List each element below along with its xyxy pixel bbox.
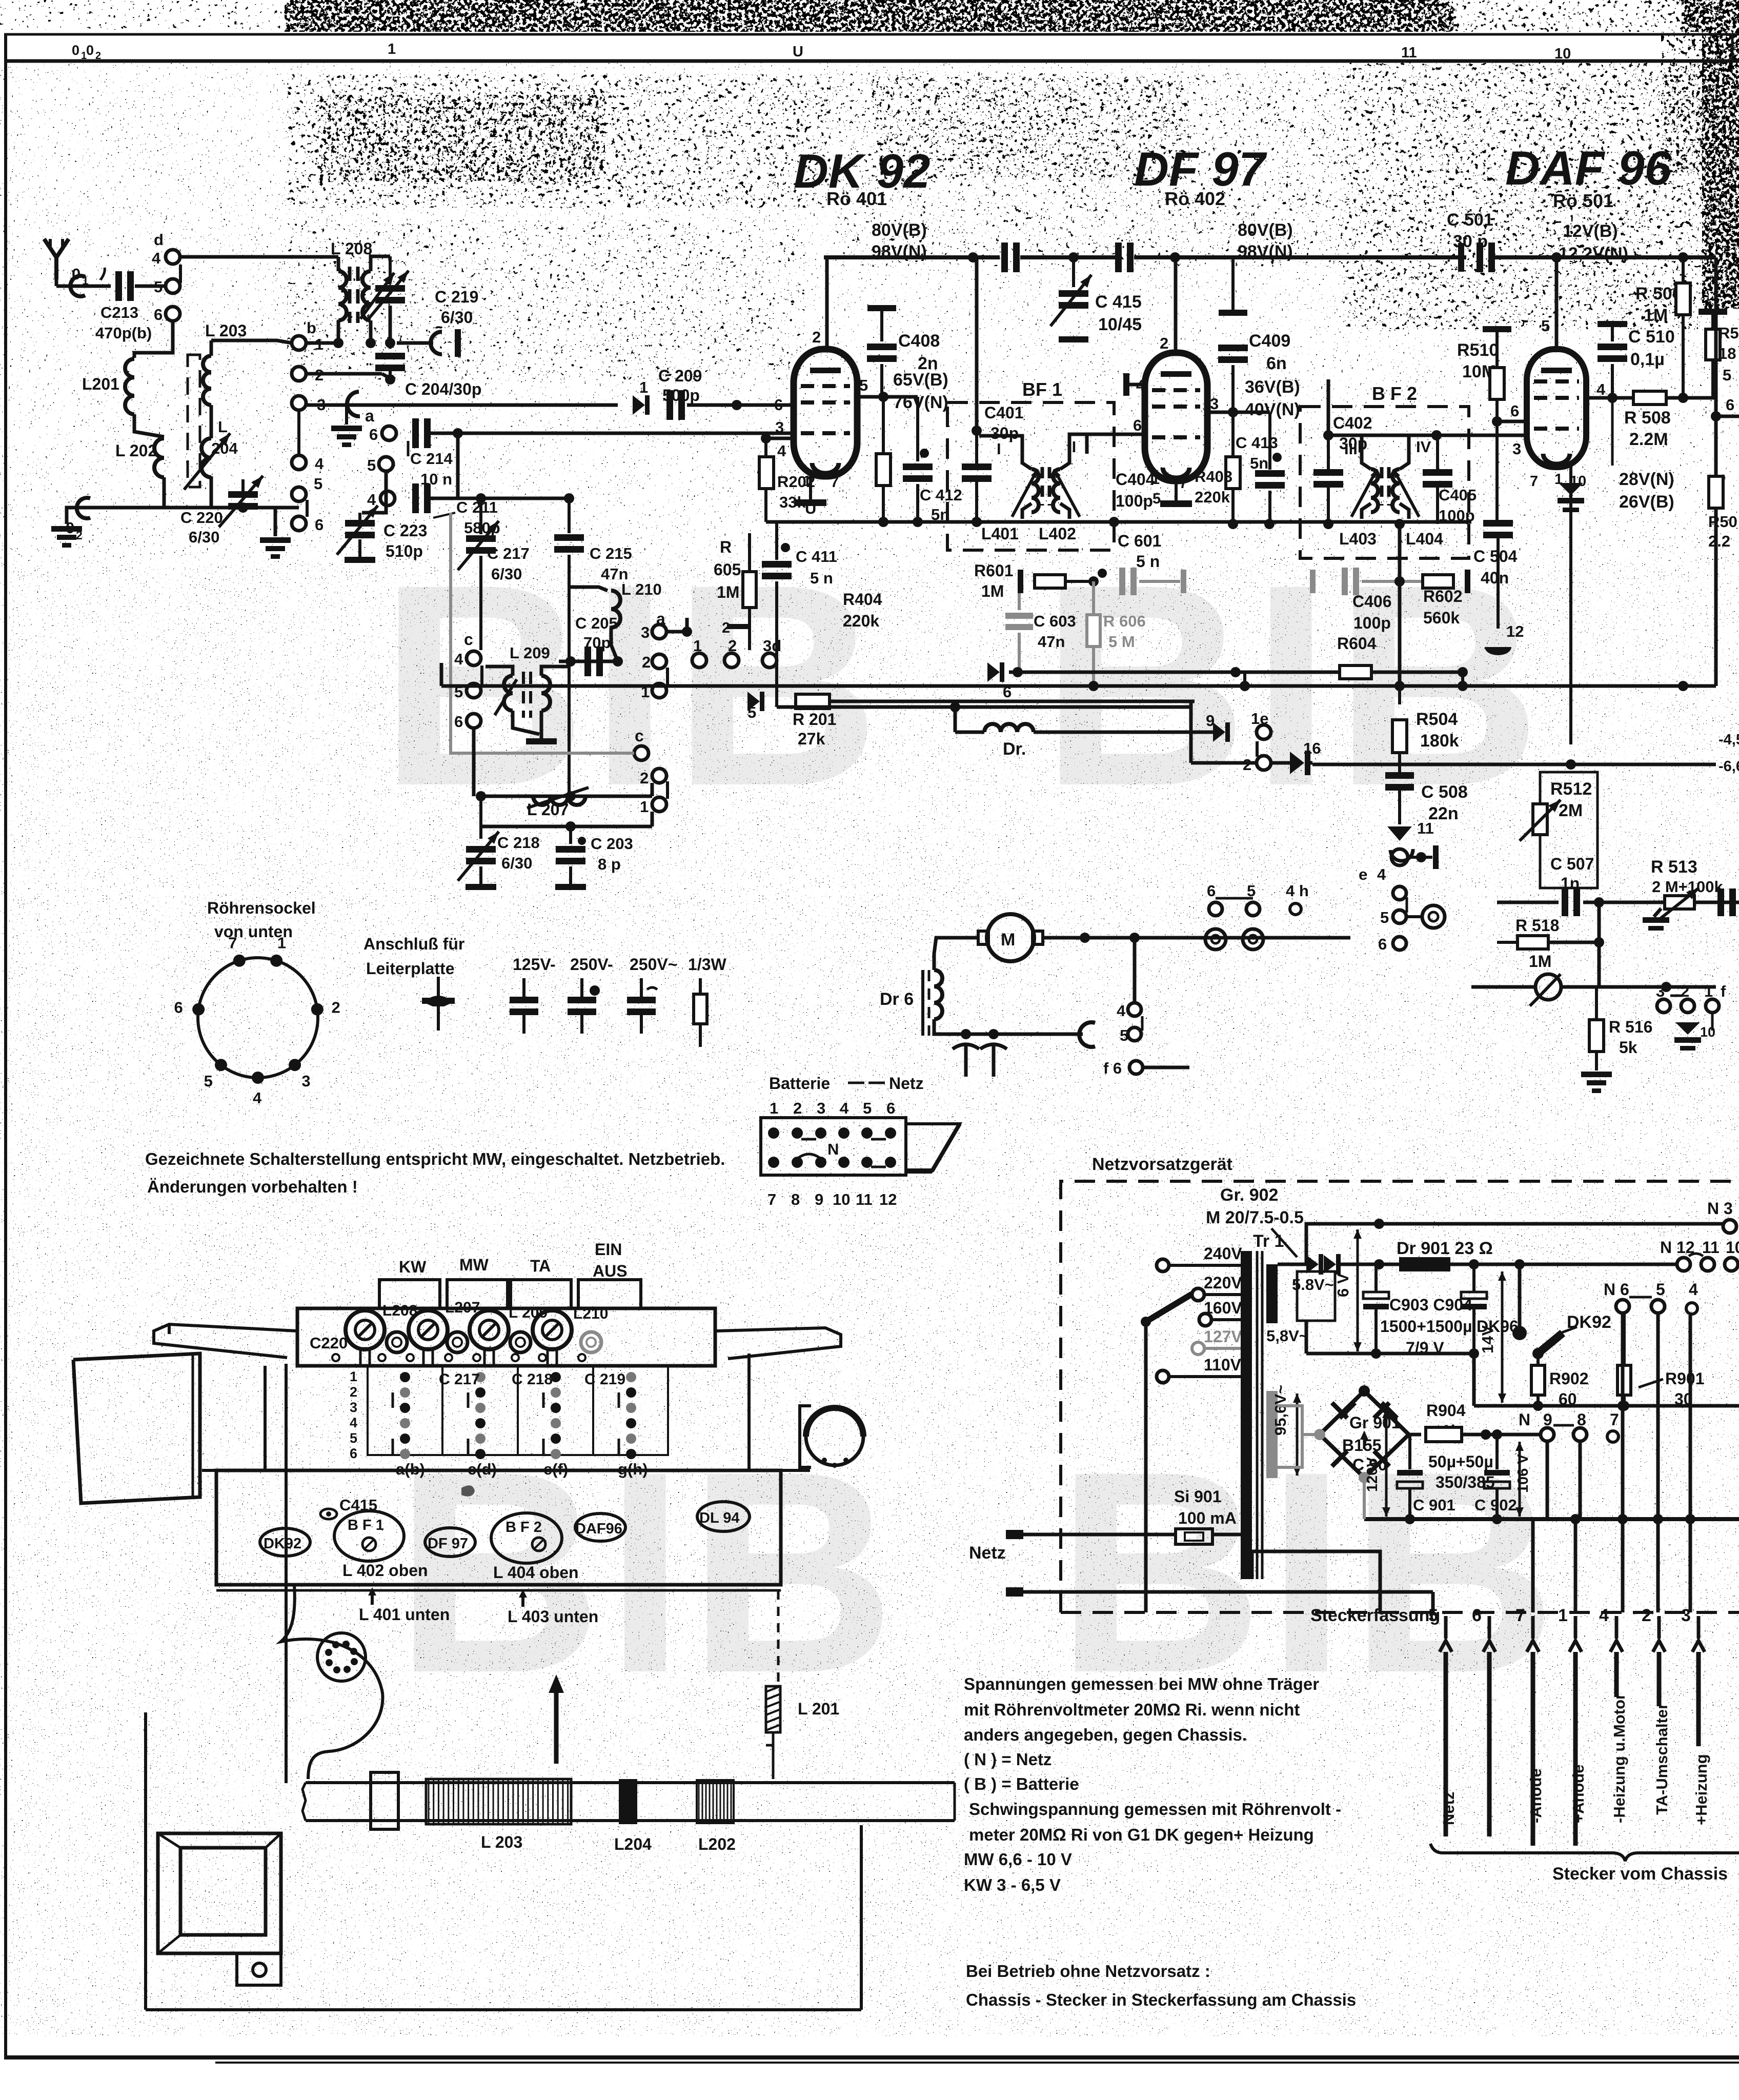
socket BF1 [334,1511,404,1561]
svg-text:4: 4 [1117,1002,1126,1020]
svg-text:4: 4 [367,491,376,509]
coil L201 [125,359,134,414]
terminal O1 [70,276,85,296]
svg-text:125V-: 125V- [513,955,556,974]
svg-text:Rö 402: Rö 402 [1165,188,1225,209]
svg-text:1: 1 [350,1369,357,1384]
long N wires down [1621,1314,1625,1612]
capacitor C412 [916,397,919,461]
svg-text:R403: R403 [1195,468,1232,486]
capacitor C215 [568,498,571,533]
svg-text:R601: R601 [974,561,1014,580]
svg-text:Dr 6: Dr 6 [880,990,914,1009]
svg-text:1: 1 [770,1099,778,1117]
svg-text:R 516: R 516 [1609,1018,1652,1036]
svg-text:L 203: L 203 [205,321,247,340]
svg-text:4: 4 [840,1099,849,1117]
battery connector block [761,1118,906,1175]
diode box outline [1297,1271,1335,1321]
resistor R404 [876,454,891,486]
svg-text:7: 7 [831,474,839,491]
resistor R202 [759,457,774,489]
svg-text:7: 7 [1179,475,1187,492]
double contacts 6 5 [1205,929,1226,950]
capacitor C406 [1310,570,1316,593]
antenna [44,239,69,279]
wire 6 to L201 [134,321,173,358]
wire a3 right [666,630,687,634]
svg-text:C405: C405 [1439,486,1477,504]
svg-text:C408: C408 [898,331,940,351]
svg-text:6: 6 [174,998,183,1016]
capacitor C904 [1461,1292,1487,1299]
svg-text:R404: R404 [843,590,882,609]
svg-text:meter 20MΩ Ri von G1 DK gegen+: meter 20MΩ Ri von G1 DK gegen+ Heizung [969,1825,1314,1844]
series capacitor on bus 1 [1001,243,1008,272]
svg-text:3: 3 [817,1099,825,1117]
svg-text:3: 3 [1512,440,1521,458]
svg-text:605: 605 [714,560,741,579]
coil L202 on rod [697,1780,734,1823]
resistor R403 [1226,457,1240,489]
capacitor C405 [1423,469,1452,476]
svg-text:80V(B): 80V(B) [872,220,927,240]
top rail to N3 [1306,1224,1723,1264]
capacitor C409 [1231,257,1235,312]
svg-text:1M: 1M [981,582,1004,600]
socket DL94 [697,1502,750,1531]
svg-text:R 201: R 201 [793,710,836,729]
svg-text:0,1µ: 0,1µ [1630,350,1665,369]
IF transformer [1351,454,1419,519]
svg-text:L 202: L 202 [115,441,157,460]
ground triangle below contacts [1675,1022,1700,1035]
svg-text:1: 1 [640,798,649,816]
capacitor C504 [1495,421,1499,521]
svg-text:a: a [365,407,374,425]
svg-text:L 209: L 209 [510,644,550,662]
svg-text:B F 1: B F 1 [348,1517,384,1533]
svg-text:2: 2 [812,328,821,346]
svg-text:C401: C401 [984,403,1024,422]
svg-text:5 M: 5 M [1108,633,1135,651]
svg-text:5: 5 [367,456,376,474]
capacitor link under R605 [727,624,750,629]
svg-text:b: b [307,319,316,337]
svg-text:C 901: C 901 [1413,1496,1455,1514]
switch arc near motor [1079,1022,1095,1047]
svg-text:3: 3 [641,623,650,641]
svg-text:R504: R504 [1416,710,1458,729]
DAF96 pin6 wire [1497,420,1527,423]
svg-text:6: 6 [369,426,378,443]
svg-text:2: 2 [640,769,649,787]
svg-text:MW 6,6 - 10 V: MW 6,6 - 10 V [964,1850,1072,1869]
wire to DK92 pin6 [687,403,794,407]
series capacitor on bus 2 [1115,243,1122,272]
eye C415 [320,1509,337,1519]
svg-text:R604: R604 [1337,634,1377,653]
capacitor C408 [880,311,883,341]
svg-text:C402: C402 [1333,414,1372,432]
switch bridge bar 3-4 [297,411,300,454]
svg-text:98V(N): 98V(N) [1238,242,1293,261]
svg-text:C903 C904: C903 C904 [1389,1296,1472,1314]
DAF96 pin4 wire [1586,396,1716,400]
svg-text:I: I [997,440,1001,458]
wire R201 to contacts [769,668,770,701]
Netz wires [1023,1533,1176,1537]
secondary 95.6V winding [1266,1391,1278,1478]
ferrite rod [188,355,200,487]
svg-text:Schwingspannung gemessen mit: Schwingspannung gemessen mit Röhrenvolt … [969,1800,1341,1819]
wire d4 to L208 [180,255,338,259]
rail 6V upper [1338,1263,1684,1266]
svg-text:6: 6 [1378,935,1387,953]
svg-text:470p(b): 470p(b) [95,324,152,342]
battery block links [801,1138,816,1141]
terminal O2 [77,498,90,518]
lamp DK92 [1539,1333,1563,1352]
chassis stub right of L208 [397,341,433,345]
svg-text:M: M [1001,930,1015,950]
svg-text:5: 5 [154,278,163,296]
wire BF2 bottom column [1398,524,1402,686]
trimmer capacitor C218 [479,796,482,839]
wire 1925 line [1471,985,1535,989]
ground L209 [526,738,557,744]
svg-text:DAF96: DAF96 [575,1521,622,1537]
120V arrow [1385,1409,1388,1517]
dashed edge right of panel [777,1590,780,1684]
wire bus corner to DK92 pin2 [825,257,829,350]
svg-text:6: 6 [1726,396,1734,414]
svg-text:7: 7 [1610,1410,1619,1429]
svg-text:4: 4 [1689,1280,1698,1299]
svg-text:-4,5: -4,5 [1718,732,1739,748]
socket DAF96 [575,1513,625,1541]
svg-text:10: 10 [1726,1238,1739,1257]
svg-text:R5: R5 [1718,324,1739,342]
wire R201-line corner down [1189,701,1193,763]
wire transformer bottom [1252,1551,1380,1612]
svg-text:d: d [154,231,164,249]
svg-text:L207: L207 [445,1299,480,1316]
wire 1760 line [1497,901,1559,904]
secondary 5.8V winding top [1266,1264,1278,1323]
bridge rectifier Gr901 [1314,1385,1409,1483]
svg-text:12V(B): 12V(B) [1563,221,1618,241]
svg-text:Bei Betrieb ohne Netzvorsat: Bei Betrieb ohne Netzvorsatz : [966,1962,1210,1981]
svg-text:28V(N): 28V(N) [1619,470,1674,489]
tuning cap symbol [964,1043,968,1077]
wire a5 to C223 [362,472,386,513]
capacitor C211 580p [412,483,419,513]
svg-text:Anschluß für: Anschluß für [363,935,464,953]
svg-text:6: 6 [454,713,463,731]
dial rod [306,1781,955,1784]
svg-text:100p: 100p [1439,507,1475,524]
pickup circle 5 [1422,905,1445,928]
svg-text:L 208: L 208 [331,239,372,258]
svg-text:220V: 220V [1204,1274,1242,1292]
svg-text:KW 3 - 6,5 V: KW 3 - 6,5 V [964,1875,1061,1894]
IF transformer [1012,454,1080,519]
svg-text:+Heizung: +Heizung [1692,1754,1710,1825]
svg-text:8: 8 [1577,1410,1586,1429]
bridge bar c4-c5 [480,665,483,685]
svg-text:26V(B): 26V(B) [1619,492,1674,512]
resistor R516 [1589,1020,1604,1052]
frame tab [237,1953,281,1985]
svg-text:80V(B): 80V(B) [1238,220,1293,240]
svg-text:1: 1 [803,473,811,490]
svg-text:R901: R901 [1665,1369,1705,1388]
svg-text:-Heizung u.Motor: -Heizung u.Motor [1610,1693,1628,1823]
wire b3 east long [306,403,618,407]
svg-text:7: 7 [1515,1606,1525,1625]
chassis symbol [437,977,440,1031]
cell contact dots [400,1372,410,1382]
svg-text:4 h: 4 h [1286,882,1309,900]
svg-text:8: 8 [791,1190,800,1208]
contact arc a on b3 wire [347,392,360,416]
wire bus to DF97 pin2 [1174,257,1178,353]
svg-text:C 601: C 601 [1118,532,1161,550]
chassis left edge [285,1364,288,1783]
svg-text:5: 5 [859,376,868,394]
trimmer rings [387,1332,407,1352]
pointer arrow chassis [554,1687,559,1764]
DF97 pin4 grid bar [1123,373,1129,396]
coil L204 [201,438,211,477]
svg-text:12: 12 [1506,622,1524,640]
svg-text:95,6V~: 95,6V~ [1271,1385,1289,1436]
svg-text:6: 6 [1510,402,1519,420]
lower rail 6V [1306,1352,1474,1356]
ground symbol O2 [51,526,82,532]
svg-text:L201: L201 [82,375,119,393]
svg-text:Leiterplatte: Leiterplatte [366,959,454,978]
svg-text:250V-: 250V- [570,955,613,974]
wire a6 to DK92 pin3 [431,432,794,435]
capacitor C203 8p [569,826,572,844]
6V arrow [1357,1229,1359,1351]
svg-text:C 412: C 412 [920,486,962,504]
svg-text:R512: R512 [1550,779,1592,799]
rail A wire [441,684,1716,688]
svg-text:1: 1 [1558,1606,1568,1625]
svg-text:100p: 100p [1353,614,1391,632]
svg-text:11: 11 [1417,819,1434,837]
svg-text:4: 4 [152,249,161,267]
svg-text:( N ) = Netz: ( N ) = Netz [964,1750,1052,1769]
capacitor C214 [412,418,419,448]
svg-text:5 n: 5 n [1136,552,1160,571]
socket DK92 [260,1528,310,1556]
106V arrow [1519,1442,1521,1517]
svg-text:R904: R904 [1426,1401,1466,1420]
svg-text:C 217: C 217 [439,1371,480,1388]
rod collar [371,1772,398,1829]
svg-text:5: 5 [1152,491,1161,507]
svg-text:L 402 oben: L 402 oben [342,1561,428,1580]
left tilted plate [73,1354,200,1503]
motor M [987,914,1034,961]
svg-text:Netzvorsatzgerät: Netzvorsatzgerät [1092,1155,1232,1174]
node 6 right edge [1711,411,1721,421]
wire c6 down to L207 [472,728,476,796]
svg-text:Rö 401: Rö 401 [826,188,887,209]
svg-text:N 12: N 12 [1660,1238,1695,1257]
bridge bar a2-a1 [666,668,669,685]
wire O2 to ground [67,508,90,524]
DK92 pin4 wire [766,437,794,440]
svg-text:100 mA: 100 mA [1178,1509,1237,1527]
svg-text:6: 6 [1207,882,1216,900]
trimmer capacitor C219 [389,256,392,283]
resistor R509 2.2M right edge [1709,476,1723,508]
svg-text:TA-Umschalter: TA-Umschalter [1653,1703,1671,1815]
svg-text:30p: 30p [990,424,1019,442]
wire L203 top to contact b1 [211,340,292,343]
svg-text:TA: TA [530,1257,551,1275]
svg-text:Tr 1: Tr 1 [1253,1231,1284,1251]
tube DF97 Roe402 [1145,353,1207,481]
svg-text:L 404 oben: L 404 oben [493,1563,579,1582]
svg-text:2: 2 [350,1384,357,1400]
svg-text:f: f [1721,982,1726,1000]
svg-text:6/30: 6/30 [441,308,473,327]
resistor R201 27k [796,694,830,709]
wire a4 to C215/C217 tops [431,497,569,500]
svg-text:L 403 unten: L 403 unten [508,1607,598,1626]
socket panel [216,1470,781,1585]
svg-text:Steckerfassung: Steckerfassung [1310,1606,1440,1625]
rail B wire [777,705,1191,709]
svg-text:DAF 96: DAF 96 [1505,141,1672,195]
wire C219 top [389,255,390,258]
svg-text:7: 7 [228,934,237,952]
svg-text:8 p: 8 p [598,855,621,873]
svg-text:U: U [793,44,803,60]
wires bridge to winding [1278,1406,1320,1435]
coil L203 on rod [426,1779,571,1824]
primary wire down [1240,1579,1241,1581]
svg-text:Röhrensockel: Röhrensockel [207,899,316,917]
svg-text:R 518: R 518 [1515,916,1559,935]
svg-text:III: III [1344,440,1358,458]
svg-text:510p: 510p [386,542,423,560]
rail 14V bottom [1474,1404,1739,1408]
bracket left wing [154,1324,297,1358]
svg-text:Gezeichnete Schalterstellung e: Gezeichnete Schalterstellung entspricht … [145,1149,725,1168]
svg-text:BF 1: BF 1 [1022,379,1062,400]
coil L204 on rod [619,1779,637,1824]
svg-text:Spannungen gemessen bei MW ohn: Spannungen gemessen bei MW ohne Träger [964,1674,1319,1693]
trimmer capacitor C415 [1072,257,1075,287]
right roller [806,1408,863,1465]
svg-text:( B ) = Batterie: ( B ) = Batterie [964,1774,1079,1793]
R512 box [1540,772,1598,888]
svg-text:R510: R510 [1457,340,1499,360]
svg-text:-Anode: -Anode [1527,1768,1545,1823]
svg-text:U: U [805,499,816,517]
svg-text:250V~: 250V~ [630,955,677,974]
resistor R604 [1340,665,1371,679]
wire after diode 16 [1271,761,1290,765]
knobs L208 L207 L209 L210 [346,1310,385,1349]
svg-text:C 501: C 501 [1447,210,1493,230]
ground a [345,405,348,425]
wire L209/C205 node [559,660,618,663]
wire bus to BF1 [975,257,979,431]
panel blob [461,1485,475,1496]
BF2 dashed box [1300,407,1469,558]
svg-text:50µ+50µ: 50µ+50µ [1428,1452,1493,1471]
DAF96 cathode ground [1569,467,1572,744]
svg-text:120V: 120V [1364,1457,1381,1492]
svg-text:N: N [1519,1410,1530,1429]
wire contact f [1711,1013,1714,1031]
svg-text:3: 3 [350,1400,357,1415]
svg-text:C 214: C 214 [410,450,453,468]
svg-text:5: 5 [204,1072,213,1090]
Steckerfassung dashed line [1061,1611,1739,1614]
diode 6 below C603 [987,662,1000,682]
svg-text:L204: L204 [614,1835,652,1853]
svg-text:5k: 5k [1619,1038,1637,1057]
svg-text:· Rö 501: · Rö 501 [1542,190,1613,211]
svg-text:5: 5 [350,1430,357,1446]
svg-text:4: 4 [350,1415,357,1430]
DAF96 pin5 wire [1555,257,1559,349]
tube DK92 Roe401 [794,349,857,476]
svg-text:106 V: 106 V [1515,1454,1531,1493]
brace Stecker vom Chassis [1430,1844,1739,1861]
svg-text:5: 5 [1380,908,1389,926]
svg-text:C 217: C 217 [487,544,530,562]
svg-text:KW: KW [399,1258,427,1276]
svg-text:-6,6: -6,6 [1718,758,1739,775]
svg-text:11: 11 [1702,1238,1720,1257]
wire L207 lower [481,825,652,829]
svg-text:Batterie: Batterie [769,1074,830,1093]
svg-text:Dr.: Dr. [1003,739,1026,759]
socket BF2 [491,1513,562,1563]
svg-text:6: 6 [154,306,163,324]
svg-text:11: 11 [856,1190,873,1208]
svg-text:L210: L210 [573,1305,608,1322]
BF2 top wire to DAF96 [1328,434,1527,437]
svg-text:L403: L403 [1339,530,1377,548]
selector lever [1146,1294,1192,1322]
svg-text:12: 12 [879,1190,897,1208]
svg-text:C 220: C 220 [180,509,223,527]
svg-text:C 510: C 510 [1628,327,1675,347]
svg-text:127V: 127V [1204,1327,1242,1346]
wire L208/C219 bottom to b1 [306,341,343,345]
resistor R901 [1623,1323,1626,1365]
ground bus wire [90,506,299,510]
series capacitor C501 [1458,243,1464,272]
svg-text:4: 4 [1596,380,1606,398]
svg-text:M 20/7.5-0.5: M 20/7.5-0.5 [1206,1208,1304,1227]
svg-text:47n: 47n [1038,633,1065,651]
svg-text:C406: C406 [1352,592,1392,611]
wire DK96 lamp column [1518,1264,1522,1331]
svg-text:EIN: EIN [595,1240,622,1259]
